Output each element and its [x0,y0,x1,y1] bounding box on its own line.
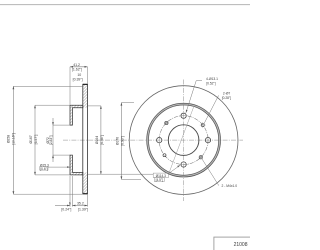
dim D2 arrows [34,105,36,108]
dim D5 line (left of circle) [120,103,122,180]
bolt hole E [205,137,210,142]
vertical centerline right view [183,80,185,202]
small hole NE Ø7 [201,124,204,127]
svg-text:Ø167: Ø167 [29,135,33,143]
bolt hole W [157,137,162,142]
right view band circle outer [147,103,221,177]
svg-text:[6.57"]: [6.57"] [34,135,38,145]
leader 4-Ø13.1 [186,81,202,113]
section plane diagonal [169,106,194,173]
dim D1 extension top [13,85,82,87]
label Ø114.3 box [153,173,168,178]
dim D3 extension top [53,124,70,126]
right view bolt circle dash-dot [159,116,208,165]
dim D1 extension bottom [13,193,82,195]
right view band circle inner [149,105,219,175]
section view: slab top edge cap [83,83,88,85]
title block box [214,237,256,250]
dim top left extension [69,67,71,105]
section view: slab hatch bottom [83,172,88,193]
label Ø15.3 leader [48,166,70,168]
horizontal centerline (axis) [63,139,243,141]
svg-text:21008: 21008 [234,242,248,248]
dim D2 Ø167 line [34,105,36,175]
dim D2 extension bottom [35,174,70,176]
svg-text:2 - M4x1.0: 2 - M4x1.0 [222,184,238,188]
svg-text:[6.46"]: [6.46"] [100,135,104,145]
svg-text:[6.93"]: [6.93"] [120,136,124,146]
section view: friction slab outline [83,84,88,194]
small hole SE M4 [199,156,202,159]
leader 2-Ø7 [204,95,219,124]
leader Ø114.3 [168,165,180,173]
section view: hat top wall + plate upper [70,105,83,125]
dim D5 extension bottom [121,178,141,180]
svg-text:10: 10 [77,73,81,77]
svg-text:[4.5"]: [4.5"] [156,178,163,182]
right view outer circle [129,86,238,195]
leader M4 [202,159,219,186]
svg-text:35.2: 35.2 [77,202,84,206]
dim D2 extension top [35,104,70,106]
label 4.5 box [154,178,164,182]
section view: hat bottom wall + plate lower [70,155,83,175]
svg-text:[10.16"]: [10.16"] [12,133,16,145]
svg-text:Ø164: Ø164 [95,136,99,144]
bottom dim 35.2 line [72,205,87,207]
dim top right extension [87,67,89,84]
dim D1 arrows [13,86,15,89]
dim D1 Ø258 line [12,86,14,194]
svg-text:41.2: 41.2 [73,63,80,67]
svg-text:[1.62"]: [1.62"] [72,67,82,71]
right view band middle filler [148,104,220,176]
dim top 41.2 line [70,66,88,68]
bottom dim extension lines [69,176,71,207]
svg-text:[0.28"]: [0.28"] [222,96,232,100]
svg-text:2-Ø7: 2-Ø7 [223,91,230,95]
top border line [0,4,250,6]
dim D3 extension bottom [53,154,70,156]
svg-text:Ø258: Ø258 [7,135,11,143]
dim D5 extension top [121,102,134,104]
bottom dim 6 line [55,205,70,207]
svg-text:[2.83"]: [2.83"] [49,135,53,145]
dim D3 bore line with outside arrows [52,118,54,162]
svg-text:6: 6 [69,202,71,206]
svg-text:[1.39"]: [1.39"] [78,208,88,212]
svg-text:[0.39"]: [0.39"] [73,78,83,82]
svg-text:[0.52"]: [0.52"] [206,81,216,85]
label Ø15.3 box [40,167,48,171]
svg-text:[0.24"]: [0.24"] [61,208,71,212]
section view: slab hatch top [83,84,88,107]
section view: slab bottom edge cap [83,193,88,195]
right view center bore [168,125,199,156]
svg-text:Ø176: Ø176 [116,137,120,145]
dim D4 extension top [88,105,101,107]
bolt hole N [181,113,186,118]
small hole NW M4 [165,121,168,124]
bolt hole S [181,162,186,167]
dim D4 extension bottom long to box [88,173,153,175]
small hole SW Ø7 [163,154,166,157]
dim D4 line (between views) [100,106,102,174]
